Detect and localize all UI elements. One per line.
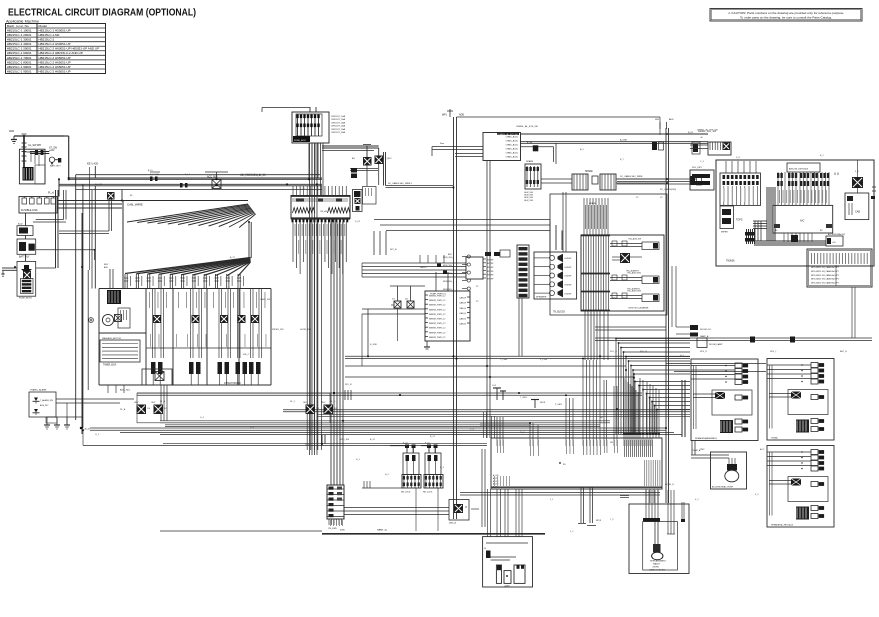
wire bus H409 (283, 410, 690, 438)
wire bus TR3 (617, 179, 696, 184)
unit B (767, 359, 834, 441)
svg-text:TIMER_BOX: TIMER_BOX (103, 365, 117, 367)
svg-text:KEY: KEY (104, 264, 109, 266)
svg-text:P2: P2 (476, 301, 479, 303)
svg-text:HB215LC-1 60001: HB215LC-1 60001 (7, 51, 32, 55)
svg-text:CAN_H: CAN_H (459, 297, 466, 300)
wire battery feed (9, 131, 64, 137)
svg-text:A2D: A2D (104, 266, 108, 269)
svg-text:ACCESSORIAL_PUMP: ACCESSORIAL_PUMP (712, 486, 734, 489)
valve cluster V1 (401, 443, 421, 494)
speaker unit A (691, 359, 758, 441)
svg-text:CN_4WD: CN_4WD (328, 528, 337, 530)
wire bus H421 (160, 385, 610, 427)
svg-text:D1: D1 (165, 408, 168, 410)
svg-text:HORN ASSEMBLY: HORN ASSEMBLY (650, 560, 667, 563)
svg-text:C_3: C_3 (700, 161, 705, 163)
wire bus TR2 (521, 142, 709, 151)
relay K4 (304, 402, 320, 414)
small cluster 462 (471, 449, 485, 527)
svg-text:GLW_SIG: GLW_SIG (524, 200, 533, 202)
svg-text:ALM_RLY: ALM_RLY (40, 404, 49, 407)
svg-text:P1: P1 (476, 286, 479, 288)
wire vbus B (331, 219, 343, 486)
conn pair on bus3 (690, 176, 702, 185)
wire corner x322 (83, 430, 487, 445)
relay K2 (135, 402, 151, 414)
label starter (49, 148, 58, 153)
svg-text:TN36A: TN36A (771, 437, 778, 440)
svg-text:SENSR_PWR_C2: SENSR_PWR_C2 (429, 309, 446, 311)
accessorial box (826, 233, 845, 246)
svg-text:SP_RF: SP_RF (487, 263, 494, 265)
accessorial pump P1 (691, 440, 747, 489)
svg-text:CHMD_ACSL: CHMD_ACSL (506, 136, 519, 139)
wire horn left (620, 496, 629, 498)
wire sol top (584, 198, 608, 235)
svg-text:SOL_A: SOL_A (610, 350, 617, 353)
svg-text:CAB: CAB (855, 211, 860, 214)
svg-text:WFL: WFL (442, 114, 448, 117)
tops bundle (745, 229, 826, 245)
svg-text:CABIN COUPLING: CABIN COUPLING (649, 569, 666, 572)
svg-text:RADIO: RADIO (420, 266, 427, 269)
svg-text:H_3: H_3 (440, 467, 445, 469)
label fuse box pins (331, 115, 346, 134)
svg-text:SP_RF: SP_RF (487, 278, 494, 280)
label attach boom (224, 382, 241, 385)
svg-text:BATT_RLY: BATT_RLY (50, 165, 61, 168)
svg-text:CIRCUIT_20A: CIRCUIT_20A (331, 118, 346, 121)
svg-text:A_31: A_31 (370, 438, 376, 441)
svg-text:FUSE_BOX: FUSE_BOX (294, 140, 306, 142)
wire panel drop pairs (124, 274, 244, 289)
wire y250 (36, 249, 96, 260)
wire bus H428 (90, 428, 682, 435)
svg-text:B_7: B_7 (620, 159, 625, 161)
fusible link FL1 (19, 192, 57, 214)
svg-text:WA2527: WA2527 (653, 563, 660, 566)
svg-text:CAN_H: CAN_H (459, 317, 466, 320)
svg-text:J_1: J_1 (550, 499, 554, 501)
relay K3 (152, 402, 168, 414)
wire tops feed (726, 161, 756, 173)
wire route C (595, 327, 872, 343)
cab harness box edge 1 (76, 175, 320, 420)
wire jb drop (487, 161, 490, 439)
wire bus H417 (317, 415, 690, 438)
svg-text:HB215LC-2 H65051-UP: HB215LC-2 H65051-UP (39, 60, 71, 64)
svg-text:95: 95 (563, 464, 566, 466)
label key a2d (87, 162, 98, 178)
svg-text:Rem: Rem (440, 143, 445, 145)
svg-text:C_01: C_01 (300, 188, 306, 190)
svg-text:HB215LC-2 H65051-UP: HB215LC-2 H65051-UP (39, 69, 71, 73)
junction box JB2 (363, 187, 377, 205)
svg-text:WASHER_MOTOR: WASHER_MOTOR (102, 337, 121, 340)
svg-text:MON_SIG_3: MON_SIG_3 (443, 281, 454, 283)
wire starter leads (24, 136, 64, 168)
relay K-A1 (352, 157, 372, 166)
svg-text:FUSIBLE LINK: FUSIBLE LINK (21, 209, 38, 212)
svg-text:B_05: B_05 (688, 132, 694, 134)
junction small (449, 500, 469, 525)
svg-text:+5V: +5V (832, 242, 836, 244)
wire bus H393 (137, 392, 642, 396)
svg-text:ACCESSORIAL(5V): ACCESSORIAL(5V) (828, 233, 845, 236)
diode D2 (405, 299, 414, 309)
svg-text:FUSE_BOX2: FUSE_BOX2 (19, 298, 33, 300)
svg-text:TOPS: TOPS (736, 219, 743, 222)
svg-text:SP_RF: SP_RF (487, 275, 494, 277)
wire bus riser (58, 136, 70, 197)
svg-text:Model: Model (39, 24, 48, 28)
wire ecu top (436, 272, 448, 291)
svg-text:CHMD_ACSL: CHMD_ACSL (506, 140, 519, 143)
svg-text:DIESEL_KEY_SW: DIESEL_KEY_SW (698, 131, 717, 133)
svg-text:4WD_SW: 4WD_SW (340, 439, 349, 441)
svg-text:SPL_A: SPL_A (390, 248, 397, 251)
svg-text:+4WD: +4WD (504, 586, 510, 588)
label tn cable (388, 182, 676, 191)
svg-text:A_06M: A_06M (620, 139, 627, 142)
unit C (767, 446, 834, 528)
relay K-A2 (375, 156, 393, 165)
svg-text:COMMDL_AL_SYS_5M: COMMDL_AL_SYS_5M (497, 133, 518, 136)
svg-text:SPEAKER(ASSEMBLY): SPEAKER(ASSEMBLY) (695, 437, 718, 440)
svg-text:LHD/SP: LHD/SP (565, 285, 573, 287)
svg-text:SOL_B: SOL_B (640, 351, 647, 353)
svg-text:A_5: A_5 (580, 148, 585, 151)
wire meter drops (108, 385, 124, 393)
svg-text:SPL3: SPL3 (596, 520, 602, 522)
wire relay vert pair (384, 152, 454, 188)
svg-text:P_Q2: P_Q2 (425, 443, 430, 445)
wire right angle (457, 117, 661, 135)
wire vbus center (454, 117, 457, 519)
svg-text:CIRCUIT_30A: CIRCUIT_30A (331, 121, 346, 124)
svg-text:4WD_A: 4WD_A (449, 522, 457, 525)
svg-text:BATT RLY: BATT RLY (19, 256, 30, 259)
svg-text:CIRCUIT_60A: CIRCUIT_60A (331, 131, 346, 134)
fuse box FB1 (292, 112, 329, 143)
part list box (807, 249, 872, 287)
svg-text:LAMP_SW: LAMP_SW (260, 298, 270, 301)
svg-text:SENSR_PWR_C2: SENSR_PWR_C2 (429, 314, 446, 316)
panel label smudges (149, 292, 266, 347)
svg-text:PUMP_PRES LO: PUMP_PRES LO (430, 294, 447, 296)
wire bottom border (160, 531, 545, 534)
ground G1 (11, 136, 17, 144)
svg-text:T_ALARM_SW: T_ALARM_SW (40, 399, 53, 402)
svg-text:HORN_SW: HORN_SW (300, 329, 311, 331)
svg-text:AC_5M: AC_5M (95, 183, 102, 186)
wire left vpair (33, 190, 66, 268)
svg-text:D_02: D_02 (355, 221, 361, 223)
junction box JB1 (483, 133, 521, 161)
svg-text:HB215LC-2 H60051-UP H65051-UP: HB215LC-2 H60051-UP H65051-UP AND UP (39, 47, 100, 51)
svg-text:CAN_H: CAN_H (459, 312, 466, 315)
svg-text:RR: RR (610, 442, 614, 444)
svg-text:A_L6: A_L6 (185, 173, 191, 176)
svg-text:spl: spl (600, 417, 603, 419)
relay enclosure (137, 393, 330, 423)
svg-text:HB215LC-1 70001: HB215LC-1 70001 (7, 56, 32, 60)
svg-text:T_SEN: T_SEN (520, 397, 527, 399)
panel box frame (99, 289, 271, 386)
wire key drop (92, 186, 95, 289)
svg-text:SPARE: SPARE (585, 170, 593, 173)
svg-text:08T6-54321 GR_CABLE A4 OPT: 08T6-54321 GR_CABLE A4 OPT (811, 282, 840, 285)
cab relay X (852, 177, 863, 188)
applicable machine table (6, 24, 106, 74)
label 4wd (340, 529, 387, 532)
svg-text:D2: D2 (405, 299, 409, 301)
svg-text:D1: D1 (392, 299, 396, 301)
svg-text:SPK_L: SPK_L (770, 351, 777, 353)
diode box DB1 (353, 190, 363, 212)
svg-text:SPARE: SPARE (589, 202, 597, 205)
svg-text:A/C: A/C (800, 219, 804, 223)
svg-text:HB215LC-1 80001: HB215LC-1 80001 (7, 60, 32, 64)
wire sp sides (541, 175, 665, 183)
relay K-ACC on bus (205, 172, 228, 189)
svg-text:+24V: +24V (49, 150, 55, 152)
svg-text:08T6-54321 GR_CABLE A4 OPT: 08T6-54321 GR_CABLE A4 OPT (811, 266, 840, 269)
svg-text:V2: V2 (660, 197, 663, 199)
solenoid valve assy SV (581, 235, 664, 311)
connector block CN-J1 (291, 186, 350, 222)
svg-text:MON_SIG_1: MON_SIG_1 (443, 265, 454, 267)
svg-text:D_8: D_8 (736, 157, 741, 159)
valve cluster V2 (423, 443, 443, 494)
svg-text:J_2: J_2 (570, 531, 574, 533)
solenoid outer box (550, 194, 667, 315)
svg-text:B1: B1 (130, 195, 133, 197)
svg-text:B_L5 WH: B_L5 WH (150, 174, 159, 176)
label timer (120, 389, 131, 392)
svg-text:ROOM_LAMP: ROOM_LAMP (709, 343, 723, 346)
travel alarm box (29, 389, 56, 418)
svg-text:LHD/SP: LHD/SP (565, 258, 573, 260)
svg-text:HB215LC-1 90001: HB215LC-1 90001 (7, 65, 32, 69)
svg-text:SW_4: SW_4 (243, 354, 250, 356)
title text (8, 7, 196, 18)
svg-text:SENSR_PWR_C2: SENSR_PWR_C2 (429, 328, 446, 330)
svg-text:HB215LC-2: HB215LC-2 (39, 38, 55, 42)
wire route D (672, 266, 855, 338)
svg-text:A1: A1 (352, 157, 355, 160)
svg-text:HB215LC-1 95001: HB215LC-1 95001 (7, 69, 32, 73)
svg-text:TRAVEL_ALARM: TRAVEL_ALARM (30, 389, 47, 392)
svg-text:HB215LC-1-M0: HB215LC-1-M0 (39, 33, 60, 37)
svg-text:ANT_B: ANT_B (840, 350, 847, 353)
svg-text:HB215LC-1 10001: HB215LC-1 10001 (7, 28, 32, 32)
svg-text:ADD: ADD (669, 118, 674, 121)
battery B1 (19, 149, 45, 184)
comp small1 (485, 250, 510, 257)
svg-text:26: 26 (484, 548, 486, 550)
svg-text:DC_CABLE SEC_WIRE: DC_CABLE SEC_WIRE (620, 175, 643, 178)
svg-text:TN5_ALM_GW: TN5_ALM_GW (628, 238, 641, 241)
svg-text:RL_B: RL_B (160, 401, 166, 403)
label cn-v1 (328, 519, 343, 530)
svg-text:SOL_KEY: SOL_KEY (692, 167, 703, 169)
svg-text:ACC: ACC (760, 448, 765, 451)
capacitor T1 (492, 384, 506, 400)
svg-text:RLY: RLY (322, 402, 327, 404)
svg-text:ADD: ADD (459, 114, 464, 117)
svg-text:08T6-54321 GR_CABLE A4 OPT: 08T6-54321 GR_CABLE A4 OPT (811, 278, 840, 281)
node WFL ADD (442, 109, 464, 117)
wire route B (585, 311, 608, 360)
svg-text:K_LINE: K_LINE (540, 359, 548, 361)
wire connector drops (293, 222, 346, 450)
machine harness box MH (491, 438, 662, 489)
key switch cluster (690, 131, 731, 155)
svg-text:TN_BLOCK: TN_BLOCK (553, 312, 566, 314)
wire radio bus (362, 255, 466, 277)
svg-text:SENSR_PWR_C2: SENSR_PWR_C2 (429, 305, 446, 307)
washer motor box (100, 337, 140, 367)
controller U1 (425, 291, 470, 341)
svg-text:DC_CABLE SEC_WIRE 1: DC_CABLE SEC_WIRE 1 (388, 182, 413, 185)
svg-text:CAN_H: CAN_H (459, 302, 466, 305)
connector CN-V1 (327, 485, 344, 519)
ac unit (773, 205, 833, 242)
connector CN-G (524, 160, 541, 202)
svg-text:HB215LC-1 20001: HB215LC-1 20001 (7, 33, 32, 37)
svg-text:ROOM +24: ROOM +24 (700, 329, 711, 331)
cab box outline (716, 160, 874, 266)
svg-text:t1 t2: t1 t2 (492, 384, 497, 387)
svg-text:WIPER: WIPER (721, 232, 728, 234)
svg-text:CNTB OKO_ALMBWR: CNTB OKO_ALMBWR (628, 307, 649, 310)
svg-text:WFL: WFL (655, 119, 660, 121)
svg-text:+A_SL: +A_SL (84, 428, 91, 431)
svg-text:RL_A: RL_A (120, 408, 126, 411)
svg-text:CHMDL_AL_SYS_5M: CHMDL_AL_SYS_5M (516, 125, 538, 128)
svg-text:ELECTRICAL CIRCUIT DIAGRAM (OP: ELECTRICAL CIRCUIT DIAGRAM (OPTIONAL) (8, 7, 196, 18)
cab sub box (845, 193, 869, 220)
svg-text:CHMD_ACSL: CHMD_ACSL (506, 148, 519, 151)
wire bus H366 (345, 365, 626, 367)
svg-text:TN5_ALM/MTY: TN5_ALM/MTY (626, 270, 640, 273)
wire bus H356 (345, 356, 690, 358)
ground ecu (424, 341, 430, 349)
monitor pin rows (443, 255, 470, 291)
svg-text:ATTACH BOOM: ATTACH BOOM (224, 382, 241, 385)
svg-text:K_2: K_2 (755, 494, 760, 496)
svg-text:TN3636: TN3636 (726, 260, 735, 263)
cab harness box edge 2 (82, 185, 84, 429)
ground row (44, 417, 82, 429)
wire stair link (666, 364, 766, 372)
svg-text:C_CAN: C_CAN (500, 358, 508, 361)
wire fl right (26, 190, 123, 262)
svg-text:Applicable Machine: Applicable Machine (6, 20, 39, 24)
wire bus H377 (345, 376, 634, 378)
svg-text:HB215LC-1 50001: HB215LC-1 50001 (7, 47, 32, 51)
svg-text:H_2: H_2 (385, 474, 390, 476)
svg-text:CAN_H: CAN_H (459, 323, 466, 326)
wire bus TR2b (521, 143, 557, 164)
wire staircase (615, 338, 690, 437)
svg-text:+HORN: +HORN (652, 567, 659, 569)
svg-text:GL_SW WH: GL_SW WH (28, 144, 41, 147)
svg-text:⚠ CAUTION: Parts numbers on th: ⚠ CAUTION: Parts numbers on the drawing … (728, 11, 845, 15)
svg-text:HARN +A: HARN +A (377, 529, 387, 532)
right box L bundle (753, 187, 775, 241)
svg-text:FL_sl: FL_sl (48, 192, 54, 195)
wire fusebox drop (309, 143, 323, 196)
wire battery drop (22, 136, 42, 168)
svg-text:MON_SIG_4: MON_SIG_4 (443, 289, 454, 291)
svg-text:SP_RF: SP_RF (487, 271, 494, 273)
svg-text:CIRCUIT_40A: CIRCUIT_40A (331, 125, 346, 128)
svg-text:SENSR_PWR_C2: SENSR_PWR_C2 (429, 319, 446, 321)
svg-text:CAB_WIRE: CAB_WIRE (127, 203, 143, 207)
svg-text:SPL_B: SPL_B (345, 384, 352, 386)
svg-text:LHD/SP: LHD/SP (565, 276, 573, 278)
svg-text:LAMP_A: LAMP_A (700, 335, 709, 338)
room lamp box (697, 338, 723, 348)
splice SPLK (531, 400, 546, 409)
room lamp labels (690, 325, 711, 338)
cab wire box (123, 201, 248, 289)
conn comp on bus (527, 141, 538, 151)
wire ecu left (362, 286, 425, 366)
wire main bus P1 (59, 170, 322, 190)
svg-text:RL_D: RL_D (330, 401, 336, 403)
tick group (345, 390, 351, 400)
svg-text:PMP: PMP (700, 449, 705, 451)
horn H1 (629, 490, 689, 574)
svg-text:CHMD_ACSL: CHMD_ACSL (506, 156, 519, 159)
radio RD1 (466, 257, 494, 280)
wire vbus A (310, 143, 318, 455)
svg-text:KEY | A2D: KEY | A2D (87, 162, 98, 165)
svg-text:CN_A1: CN_A1 (320, 210, 328, 213)
svg-text:RE_LOCK: RE_LOCK (401, 492, 411, 494)
relay K-D dark (59, 192, 115, 234)
svg-text:P_RLY: P_RLY (385, 158, 392, 160)
wire antenna down (519, 298, 522, 356)
wire vc feed (344, 445, 449, 531)
panel fork connectors (151, 362, 261, 385)
svg-text:A_22: A_22 (230, 256, 236, 259)
svg-text:MON_SIG_0: MON_SIG_0 (443, 257, 454, 259)
svg-text:D0: D0 (148, 408, 151, 410)
svg-text:B_22: B_22 (430, 436, 436, 438)
svg-text:+B: +B (700, 137, 703, 139)
wiper sub box (720, 206, 734, 234)
svg-text:08T6-54321 GR_CABLE A4 OPT: 08T6-54321 GR_CABLE A4 OPT (811, 274, 840, 277)
wire mh top bundles (480, 360, 659, 438)
aircon header (777, 163, 829, 205)
svg-text:HB215LC-2 H65051-UP: HB215LC-2 H65051-UP (39, 65, 71, 69)
svg-text:J_3: J_3 (610, 519, 614, 521)
panel relays (153, 315, 259, 323)
svg-text:AIRCON_UNIT(24V): AIRCON_UNIT(24V) (789, 168, 808, 171)
svg-text:LHD/SP: LHD/SP (565, 293, 573, 295)
svg-text:WIPER_SW: WIPER_SW (272, 329, 283, 331)
wire bus TR1 (521, 133, 709, 135)
svg-text:SENSR_PWR_C2: SENSR_PWR_C2 (429, 323, 446, 325)
svg-text:P_Q2: P_Q2 (403, 443, 408, 445)
svg-text:HB215LC-1 H50051-UP: HB215LC-1 H50051-UP (39, 28, 71, 32)
meter plus sym (88, 167, 93, 390)
